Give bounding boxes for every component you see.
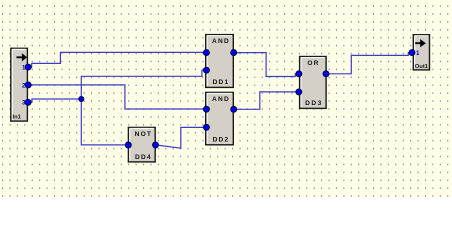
- svg-text:AND: AND: [212, 38, 230, 45]
- DD2 in2 pin dot: [203, 124, 209, 130]
- DD2 output pin dot: [231, 106, 237, 112]
- svg-text:DD1: DD1: [213, 79, 230, 86]
- Out1 arrow icon: [415, 39, 426, 47]
- wire In1 pin3 to node A: [28, 99, 81, 102]
- In1 pin 2 dot: [25, 82, 31, 88]
- DD4 output pin dot: [153, 142, 159, 148]
- svg-text:1: 1: [416, 50, 420, 57]
- In1 pin 3 dot: [25, 99, 31, 105]
- DD2 in1 pin dot: [203, 106, 209, 112]
- and-gate DD2 body: [206, 92, 234, 144]
- output port Out1 body: [413, 35, 429, 70]
- In1 arrow icon: [17, 53, 28, 61]
- input port In1 body: [11, 48, 28, 121]
- Out1 pin 1 dot: [409, 50, 415, 56]
- DD3 in2 pin dot: [296, 89, 302, 95]
- svg-text:Out1: Out1: [415, 64, 429, 70]
- DD1 in2 pin dot: [203, 67, 209, 73]
- In1 pin 1 dot: [25, 64, 31, 70]
- wire node A to DD4 input: [81, 99, 128, 145]
- DD3 output pin dot: [323, 71, 329, 77]
- svg-text:DD2: DD2: [213, 137, 230, 144]
- DD4 input pin dot: [125, 142, 131, 148]
- svg-text:DD4: DD4: [135, 154, 152, 161]
- DD3 in1 pin dot: [296, 71, 302, 77]
- svg-text:AND: AND: [212, 96, 230, 103]
- DD1 in1 pin dot: [203, 50, 209, 56]
- node A junction dot: [79, 96, 84, 101]
- wire DD4 output to DD2 in2: [156, 127, 207, 148]
- wire DD3 output to Out1 pin1: [326, 53, 412, 74]
- svg-text:DD3: DD3: [305, 100, 323, 107]
- svg-text:NOT: NOT: [135, 131, 153, 138]
- wire DD2 output to DD3 in2: [234, 92, 299, 109]
- DD1 output pin dot: [231, 50, 237, 56]
- wire node A to DD1 in2: [81, 70, 206, 99]
- svg-text:OR: OR: [307, 60, 319, 67]
- wire DD1 output to DD3 in1: [234, 53, 299, 77]
- svg-text:In1: In1: [13, 114, 22, 120]
- and-gate DD1 body: [206, 35, 234, 88]
- wire In1 pin2 to DD2 in1: [28, 85, 206, 109]
- not-gate DD4 body: [128, 127, 155, 161]
- wire In1 pin1 to DD1 in1: [28, 52, 206, 67]
- or-gate DD3 body: [300, 57, 327, 109]
